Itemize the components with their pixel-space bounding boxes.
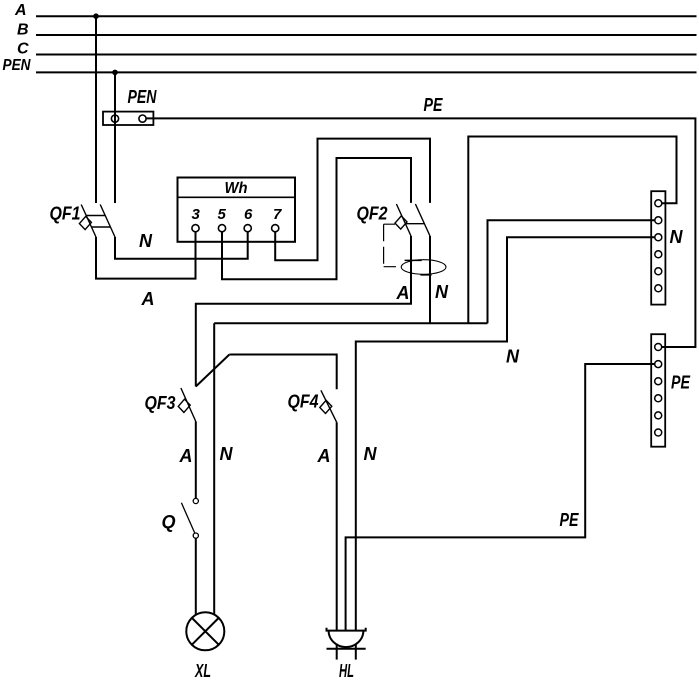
meter Wh box bbox=[178, 178, 296, 242]
svg-text:HL: HL bbox=[339, 661, 354, 681]
wire N distribution line bbox=[214, 322, 487, 324]
QF1 blade pole N bbox=[100, 205, 115, 238]
meter terminal 7 circle bbox=[272, 225, 279, 232]
PEN splitter busbar bbox=[103, 112, 153, 125]
wire meter terminal 7 to QF2 pole N bbox=[275, 139, 430, 261]
QF2 trip linkage dashed bbox=[384, 224, 396, 267]
svg-text:N: N bbox=[139, 231, 153, 251]
QF2 core tick left bbox=[405, 259, 422, 261]
svg-text:PEN: PEN bbox=[3, 57, 31, 74]
wire N drop to lamp XL bbox=[213, 323, 215, 614]
lamp HL terminal pin N bbox=[355, 644, 357, 660]
meter terminal 3 circle bbox=[192, 225, 199, 232]
svg-text:QF3: QF3 bbox=[145, 393, 176, 413]
wire A branch junction diagonal bbox=[196, 355, 230, 387]
svg-text:Q: Q bbox=[162, 512, 176, 532]
bus line PEN bbox=[36, 71, 697, 73]
QF2 blade pole A bbox=[396, 204, 411, 236]
switch Q blade bbox=[181, 503, 195, 534]
meter terminal 6 circle bbox=[244, 225, 251, 232]
svg-text:B: B bbox=[17, 21, 29, 38]
QF1 linkage bar 2 bbox=[91, 226, 110, 228]
QF4 breaker cross diamond bbox=[320, 400, 332, 413]
lamp HL terminal pin A bbox=[336, 644, 338, 660]
terminal circle PEN-1 bbox=[111, 115, 118, 122]
svg-text:N: N bbox=[670, 227, 684, 247]
QF3 breaker cross diamond bbox=[178, 399, 190, 412]
svg-text:A: A bbox=[179, 446, 193, 466]
wire QF2 pole N output down to N line bbox=[429, 236, 431, 323]
QF2 differential transformer ellipse bbox=[401, 260, 446, 275]
wire A branch over to QF4 bbox=[229, 355, 336, 390]
svg-text:A: A bbox=[141, 289, 155, 309]
QF1 blade pole A bbox=[81, 205, 96, 238]
wire PE: from PEN busbar right to right edge and down to PE busbar bbox=[146, 118, 695, 347]
N busbar bbox=[651, 191, 665, 304]
QF2 core tick right bbox=[420, 274, 431, 276]
svg-text:5: 5 bbox=[218, 206, 227, 223]
lamp XL circle bbox=[186, 612, 224, 650]
wire QF1 pole N output to meter terminal 6 bbox=[115, 232, 248, 259]
svg-text:N: N bbox=[435, 282, 449, 302]
QF2 breaker cross diamond bbox=[395, 216, 407, 229]
svg-text:PE: PE bbox=[560, 510, 580, 530]
lamp HL dome arc bbox=[329, 631, 364, 648]
svg-text:A: A bbox=[14, 2, 27, 19]
QF3 blade bbox=[181, 388, 196, 422]
switch Q bottom contact bbox=[193, 533, 198, 538]
wire switch Q to lamp XL bbox=[195, 538, 197, 615]
wire N feeder up and over to N busbar terminal 1 bbox=[468, 137, 676, 324]
wire QF4 output down to lamp HL bbox=[336, 422, 338, 630]
PE busbar bbox=[651, 334, 665, 447]
junction dot on bus PEN bbox=[112, 70, 118, 76]
QF1 linkage bar 1 bbox=[87, 215, 106, 217]
wire: PEN tap down through PEN bar to QF1 bbox=[114, 72, 116, 203]
PE busbar terminal circles bbox=[655, 344, 662, 437]
lamp HL dome top bbox=[327, 628, 366, 631]
svg-text:C: C bbox=[17, 41, 29, 58]
svg-text:A: A bbox=[317, 446, 331, 466]
svg-text:PEN: PEN bbox=[128, 87, 158, 107]
svg-text:QF4: QF4 bbox=[288, 392, 319, 412]
wire N busbar terminal 2 down to N line bbox=[488, 220, 656, 323]
wire N busbar terminal 3 to lamp HL bbox=[356, 237, 655, 630]
svg-text:3: 3 bbox=[192, 206, 201, 223]
QF2 linkage bar bbox=[406, 223, 424, 225]
meter terminal 5 circle bbox=[218, 225, 225, 232]
terminal circle PEN-2 bbox=[139, 115, 146, 122]
svg-text:PE: PE bbox=[671, 373, 691, 393]
bus line C bbox=[36, 54, 697, 56]
svg-text:N: N bbox=[220, 444, 234, 464]
N busbar terminal circles bbox=[655, 200, 662, 292]
lamp HL base line bbox=[327, 648, 366, 650]
switch Q top contact bbox=[193, 498, 198, 503]
lamp XL cross bbox=[192, 618, 219, 645]
svg-text:QF1: QF1 bbox=[50, 204, 81, 224]
bus line A bbox=[36, 15, 697, 17]
svg-text:QF2: QF2 bbox=[357, 204, 388, 224]
svg-text:PE: PE bbox=[424, 95, 444, 115]
svg-text:XL: XL bbox=[194, 661, 211, 681]
svg-text:Wh: Wh bbox=[225, 180, 248, 197]
meter Wh divider bbox=[178, 196, 296, 198]
svg-text:6: 6 bbox=[244, 206, 253, 223]
svg-text:N: N bbox=[364, 444, 378, 464]
wire QF3 output down to switch Q bbox=[195, 422, 197, 499]
wire QF2 pole A output down-left to group panel bbox=[196, 236, 411, 387]
svg-text:7: 7 bbox=[273, 206, 282, 223]
wire QF1 pole A output to meter terminal 3 bbox=[96, 232, 196, 279]
QF2 blade pole N bbox=[415, 204, 430, 236]
QF4 blade bbox=[321, 390, 337, 422]
wire: phase A tap down to QF1 bbox=[95, 16, 97, 203]
wire meter terminal 5 to QF2 pole A bbox=[222, 158, 411, 279]
junction dot on bus A bbox=[93, 13, 99, 19]
wire PE busbar terminal 2 to lamp HL bbox=[346, 364, 655, 631]
svg-text:N: N bbox=[506, 347, 520, 367]
bus line B bbox=[36, 34, 697, 36]
QF1 breaker cross diamond bbox=[79, 216, 91, 229]
svg-text:A: A bbox=[396, 283, 410, 303]
